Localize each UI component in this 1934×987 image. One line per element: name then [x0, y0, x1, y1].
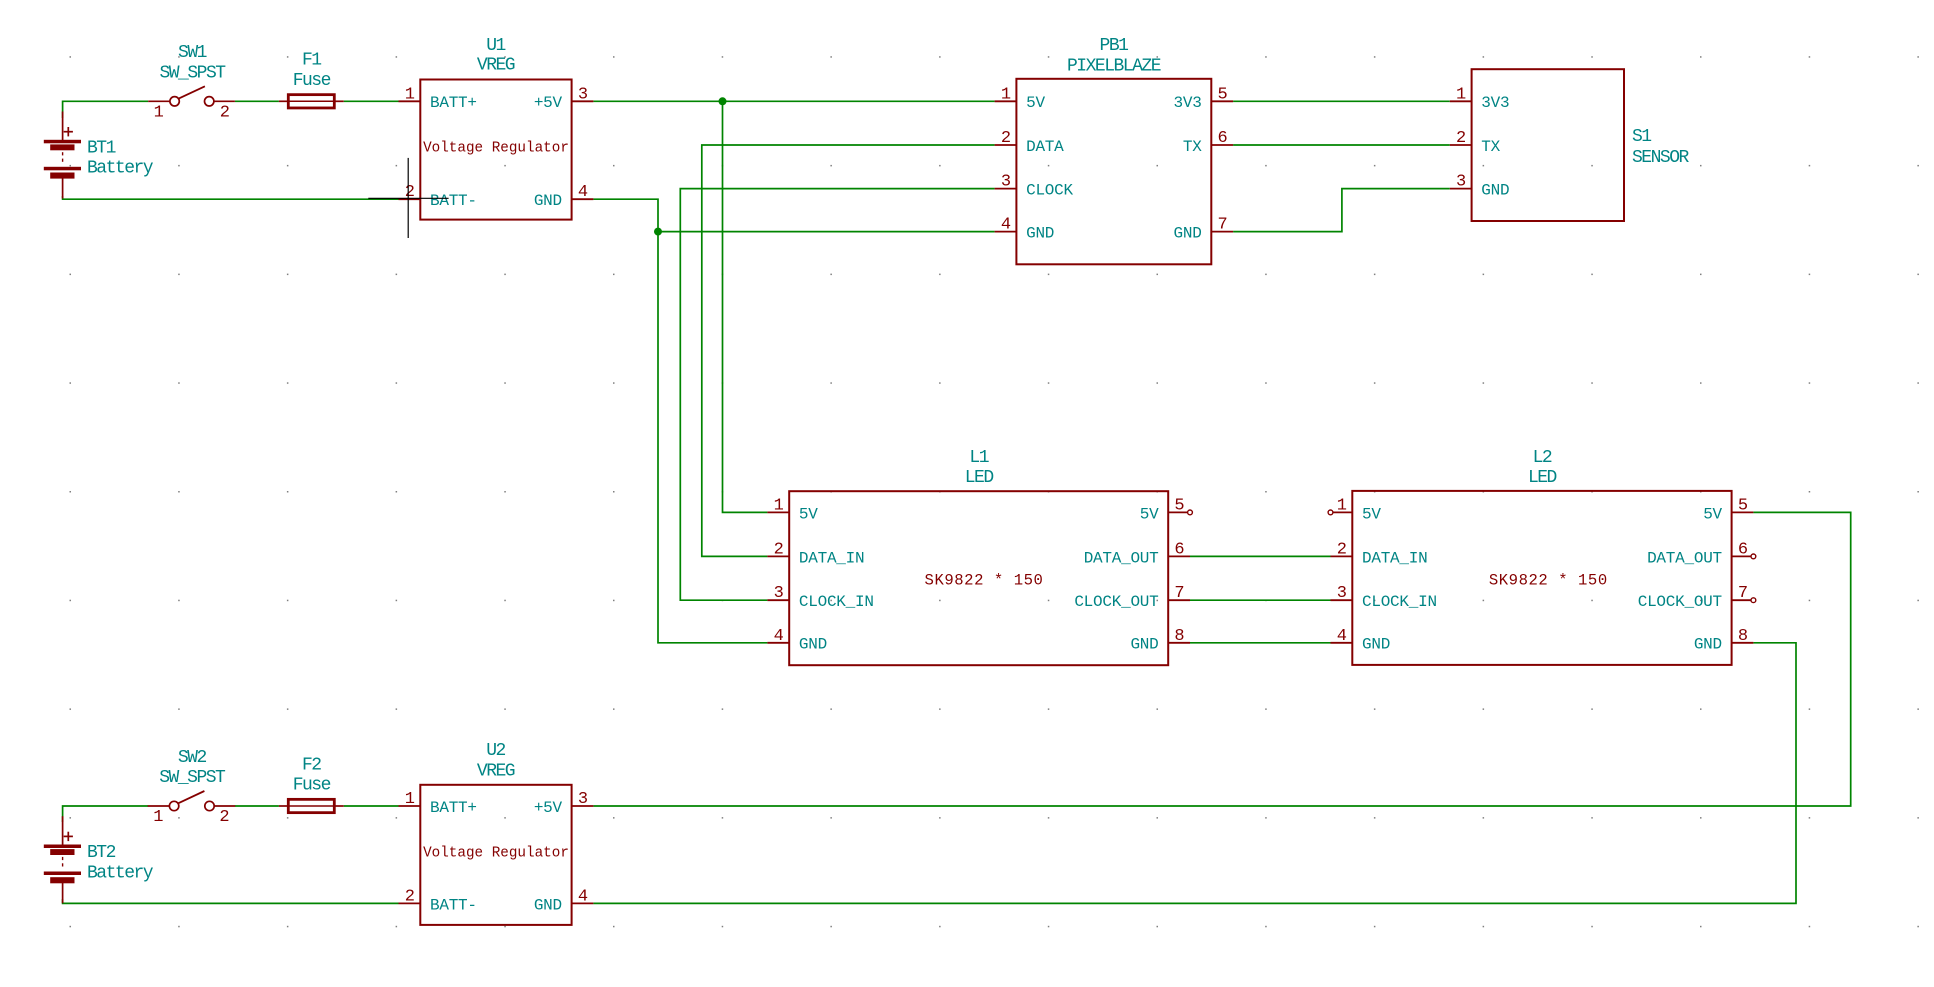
- svg-text:8: 8: [1738, 627, 1748, 646]
- wire BT1- to U1 BATT-: [63, 196, 399, 199]
- svg-text:4: 4: [578, 183, 588, 202]
- L2 pin 1 5V unconnected: [1333, 511, 1352, 513]
- svg-text:GND: GND: [1481, 182, 1509, 200]
- svg-text:SW_SPST: SW_SPST: [159, 768, 226, 788]
- U1 pin 4 GND: [572, 198, 594, 200]
- svg-text:GND: GND: [1694, 636, 1722, 654]
- svg-text:F1: F1: [302, 51, 321, 71]
- svg-text:5: 5: [1174, 496, 1184, 515]
- svg-text:CLOCK: CLOCK: [1026, 182, 1073, 200]
- switch SW1: [148, 100, 170, 102]
- L2 pin 8 GND: [1732, 642, 1754, 644]
- U2 pin 3 +5V: [572, 805, 594, 807]
- svg-text:DATA_IN: DATA_IN: [799, 549, 864, 567]
- svg-text:5: 5: [1738, 496, 1748, 515]
- svg-text:U1: U1: [486, 36, 505, 56]
- svg-text:Battery: Battery: [87, 863, 154, 883]
- svg-text:L1: L1: [969, 448, 988, 468]
- svg-text:BATT+: BATT+: [430, 94, 477, 112]
- L1 pin 1 5V: [767, 511, 789, 513]
- svg-text:1: 1: [405, 790, 415, 809]
- svg-text:PB1: PB1: [1100, 36, 1129, 56]
- wire SW1 to F1: [235, 100, 279, 102]
- svg-text:7: 7: [1218, 216, 1227, 235]
- L2 pin 6 DATA_OUT unconnected: [1732, 555, 1751, 557]
- wire L2 5V to U2 +5V: [593, 512, 1850, 806]
- svg-text:BATT-: BATT-: [430, 896, 477, 914]
- svg-text:VREG: VREG: [477, 56, 515, 76]
- L2 pin 5 5V: [1732, 511, 1754, 513]
- PB1 pin 4 GND: [995, 231, 1017, 233]
- svg-text:S1: S1: [1632, 127, 1651, 147]
- U2 pin 1 BATT+: [399, 805, 421, 807]
- svg-text:4: 4: [774, 627, 784, 646]
- svg-text:3: 3: [1337, 584, 1347, 603]
- svg-text:F2: F2: [302, 755, 321, 775]
- wire PB1 DATA to L1 DATA_IN: [702, 145, 995, 556]
- svg-text:DATA_OUT: DATA_OUT: [1084, 549, 1159, 567]
- junction GND node: [654, 228, 662, 236]
- wire PB1 CLOCK to L1 CLOCK_IN: [680, 189, 994, 601]
- U1 pin 2 BATT-: [399, 198, 421, 200]
- svg-text:1: 1: [1456, 85, 1466, 104]
- svg-text:SK9822 * 150: SK9822 * 150: [925, 572, 1044, 590]
- led strip L1: [789, 491, 1168, 665]
- svg-text:2: 2: [219, 808, 228, 827]
- wire PB1 GND to S1 GND: [1233, 189, 1450, 232]
- svg-text:1: 1: [1001, 85, 1011, 104]
- PB1 pin 7 GND: [1211, 231, 1233, 233]
- svg-text:2: 2: [405, 183, 414, 202]
- svg-text:6: 6: [1174, 540, 1184, 559]
- svg-text:TX: TX: [1481, 138, 1500, 156]
- svg-text:1: 1: [774, 496, 784, 515]
- svg-text:4: 4: [578, 887, 588, 906]
- svg-text:3V3: 3V3: [1481, 94, 1509, 112]
- L1 pin 8 GND: [1168, 642, 1190, 644]
- svg-text:GND: GND: [799, 636, 827, 654]
- svg-text:6: 6: [1738, 540, 1748, 559]
- U1 pin 1 BATT+: [399, 100, 421, 102]
- L1 pin 2 DATA_IN: [767, 555, 789, 557]
- svg-text:GND: GND: [534, 896, 562, 914]
- L1 pin 6 DATA_OUT: [1168, 555, 1190, 557]
- U1 pin 3 +5V: [572, 100, 594, 102]
- svg-text:Voltage Regulator: Voltage Regulator: [423, 140, 569, 156]
- svg-text:BATT+: BATT+: [430, 799, 477, 817]
- svg-text:GND: GND: [1362, 636, 1390, 654]
- svg-text:CLOCK_OUT: CLOCK_OUT: [1638, 593, 1722, 611]
- svg-text:3V3: 3V3: [1174, 94, 1202, 112]
- svg-text:DATA: DATA: [1026, 138, 1064, 156]
- pixelblaze PB1: [1016, 79, 1211, 264]
- svg-text:GND: GND: [1026, 225, 1054, 243]
- svg-text:SENSOR: SENSOR: [1632, 148, 1690, 168]
- svg-text:8: 8: [1174, 627, 1184, 646]
- svg-text:3: 3: [578, 790, 588, 809]
- svg-text:5V: 5V: [799, 505, 818, 523]
- svg-text:2: 2: [774, 540, 783, 559]
- wire F1 to U1 BATT+: [344, 100, 399, 102]
- svg-text:3: 3: [1456, 173, 1466, 192]
- svg-text:SW2: SW2: [178, 748, 207, 768]
- svg-text:DATA_IN: DATA_IN: [1362, 549, 1427, 567]
- svg-text:LED: LED: [965, 468, 994, 488]
- L1 pin 7 CLOCK_OUT: [1168, 599, 1190, 601]
- svg-text:5V: 5V: [1703, 505, 1722, 523]
- svg-text:CLOCK_IN: CLOCK_IN: [799, 593, 874, 611]
- svg-text:1: 1: [405, 85, 415, 104]
- svg-text:GND: GND: [1130, 636, 1158, 654]
- L1 pin 5 5V unconnected: [1168, 511, 1187, 513]
- PB1 pin 2 DATA: [995, 144, 1017, 146]
- wire BT2- to U2 BATT-: [63, 899, 399, 903]
- battery BT2: [44, 845, 81, 849]
- svg-text:2: 2: [220, 103, 229, 122]
- wire +5V down to L1 pin1: [723, 101, 768, 512]
- svg-text:SK9822 * 150: SK9822 * 150: [1489, 572, 1608, 590]
- L1 pin 3 CLOCK_IN: [767, 599, 789, 601]
- battery BT1: [44, 140, 81, 144]
- svg-text:2: 2: [1337, 540, 1346, 559]
- svg-text:U2: U2: [486, 741, 505, 761]
- svg-text:SW1: SW1: [178, 43, 207, 63]
- wire L1 CLOCK_OUT to L2 CLOCK_IN: [1190, 599, 1331, 601]
- svg-text:SW_SPST: SW_SPST: [159, 63, 226, 83]
- L2 pin 2 DATA_IN: [1331, 555, 1353, 557]
- svg-text:6: 6: [1218, 129, 1228, 148]
- wire GND branch to PB1 GND: [658, 231, 995, 233]
- led strip L2: [1352, 491, 1731, 665]
- svg-text:GND: GND: [1174, 225, 1202, 243]
- wire F2 to U2 BATT+: [344, 805, 399, 807]
- svg-text:5V: 5V: [1362, 505, 1381, 523]
- junction +5V node: [719, 97, 727, 105]
- svg-text:7: 7: [1174, 584, 1183, 603]
- L1 pin 4 GND: [767, 642, 789, 644]
- S1 pin 2 TX: [1450, 144, 1472, 146]
- svg-text:GND: GND: [534, 192, 562, 210]
- svg-text:CLOCK_OUT: CLOCK_OUT: [1074, 593, 1158, 611]
- L2 pin 4 GND: [1331, 642, 1353, 644]
- svg-text:DATA_OUT: DATA_OUT: [1647, 549, 1722, 567]
- wire U1 +5V to PB1 5V: [593, 100, 994, 102]
- svg-text:1: 1: [1337, 496, 1347, 515]
- svg-text:5V: 5V: [1026, 94, 1045, 112]
- wire U1 GND down to L1 GND: [593, 199, 767, 643]
- PB1 pin 6 TX: [1211, 144, 1233, 146]
- svg-text:2: 2: [405, 887, 414, 906]
- wire L1 DATA_OUT to L2 DATA_IN: [1190, 555, 1331, 557]
- svg-text:3: 3: [578, 85, 588, 104]
- svg-text:3: 3: [774, 584, 784, 603]
- fuse F1: [288, 95, 334, 108]
- PB1 pin 1 5V: [995, 100, 1017, 102]
- svg-text:+5V: +5V: [534, 94, 563, 112]
- svg-text:1: 1: [153, 808, 163, 827]
- wire L1 GND to L2 GND: [1190, 642, 1331, 644]
- wire PB1 3V3 to S1 3V3: [1233, 100, 1450, 102]
- PB1 pin 3 CLOCK: [995, 188, 1017, 190]
- svg-text:3: 3: [1001, 173, 1011, 192]
- svg-text:Battery: Battery: [87, 159, 154, 179]
- editor cursor crosshair: [368, 197, 448, 199]
- svg-text:+5V: +5V: [534, 799, 563, 817]
- svg-text:4: 4: [1001, 216, 1011, 235]
- U2 pin 2 BATT-: [399, 902, 421, 904]
- PB1 pin 5 3V3: [1211, 100, 1233, 102]
- svg-text:LED: LED: [1528, 468, 1557, 488]
- voltage regulator U2: [420, 785, 571, 925]
- svg-text:VREG: VREG: [477, 761, 515, 781]
- svg-text:1: 1: [154, 103, 164, 122]
- wire BT1+ to SW1: [63, 101, 149, 118]
- svg-text:5V: 5V: [1140, 505, 1159, 523]
- svg-text:7: 7: [1738, 584, 1747, 603]
- svg-text:TX: TX: [1183, 138, 1202, 156]
- S1 pin 3 GND: [1450, 188, 1472, 190]
- U2 pin 4 GND: [572, 902, 594, 904]
- svg-text:BATT-: BATT-: [430, 192, 477, 210]
- svg-text:2: 2: [1456, 129, 1465, 148]
- svg-text:PIXELBLAZE: PIXELBLAZE: [1067, 57, 1161, 77]
- fuse F2: [288, 799, 334, 812]
- wire SW2 to F2: [235, 805, 279, 807]
- svg-text:Voltage Regulator: Voltage Regulator: [423, 846, 569, 862]
- svg-text:4: 4: [1337, 627, 1347, 646]
- svg-text:BT2: BT2: [87, 843, 116, 863]
- sensor S1: [1472, 69, 1624, 221]
- wire BT2+ to SW2: [63, 806, 149, 822]
- switch SW2: [148, 805, 170, 807]
- L2 pin 7 CLOCK_OUT unconnected: [1732, 599, 1751, 601]
- svg-text:BT1: BT1: [87, 138, 116, 158]
- svg-text:Fuse: Fuse: [293, 71, 331, 91]
- voltage regulator U1: [420, 80, 571, 220]
- wire PB1 TX to S1 TX: [1233, 144, 1450, 146]
- svg-text:L2: L2: [1533, 448, 1552, 468]
- svg-text:Fuse: Fuse: [293, 776, 331, 796]
- S1 pin 1 3V3: [1450, 100, 1472, 102]
- svg-text:CLOCK_IN: CLOCK_IN: [1362, 593, 1437, 611]
- L2 pin 3 CLOCK_IN: [1331, 599, 1353, 601]
- svg-text:2: 2: [1001, 129, 1010, 148]
- svg-text:5: 5: [1218, 85, 1228, 104]
- wire L2 GND to U2 GND: [593, 643, 1796, 904]
